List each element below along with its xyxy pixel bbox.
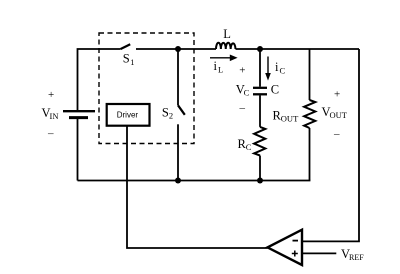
svg-text:IN: IN xyxy=(50,111,59,121)
wire inductor to top-right corner xyxy=(236,48,360,50)
svg-text:Driver: Driver xyxy=(117,111,139,120)
svg-text:C: C xyxy=(280,66,286,76)
wire right branch VOUT down to comparator minus input xyxy=(302,49,359,241)
dashed box (driver/switch enclosure) xyxy=(99,33,194,144)
svg-text:+: + xyxy=(239,65,245,77)
op-amp comparator xyxy=(268,230,303,265)
svg-text:+: + xyxy=(334,89,340,101)
svg-text:+: + xyxy=(48,89,54,101)
wire S1 right contact to inductor xyxy=(136,48,216,50)
wire RC bottom lead xyxy=(259,156,261,181)
svg-text:OUT: OUT xyxy=(281,114,299,124)
resistor ROUT top lead xyxy=(309,49,311,100)
svg-text:L: L xyxy=(223,27,231,41)
svg-text:REF: REF xyxy=(349,253,364,262)
comparator minus sign xyxy=(293,240,299,242)
svg-text:C: C xyxy=(244,87,250,97)
resistor ROUT zigzag xyxy=(304,100,315,128)
wire ROUT bottom lead xyxy=(309,128,311,181)
svg-text:2: 2 xyxy=(169,110,173,120)
battery V_IN plates xyxy=(63,110,95,112)
svg-text:S: S xyxy=(123,51,130,65)
node: junction S2 / top wire xyxy=(175,46,181,52)
wire capacitor to RC xyxy=(259,96,261,127)
svg-text:OUT: OUT xyxy=(330,110,348,120)
switch S2 top lead xyxy=(177,49,179,105)
svg-text:C: C xyxy=(246,142,252,152)
wire bottom rail xyxy=(78,180,311,182)
switch S1 lever xyxy=(121,44,131,49)
svg-text:1: 1 xyxy=(130,57,134,67)
driver box xyxy=(107,104,150,126)
node: junction RC bottom / rail xyxy=(257,178,263,184)
svg-text:–: – xyxy=(47,128,54,140)
switch S2 bottom lead xyxy=(177,124,179,180)
inductor L xyxy=(216,43,236,49)
svg-text:S: S xyxy=(162,105,169,119)
svg-text:i: i xyxy=(275,60,279,74)
switch S2 lever xyxy=(178,105,185,115)
resistor RC zigzag xyxy=(254,127,265,156)
svg-text:C: C xyxy=(271,82,279,96)
wire comparator plus input to VREF xyxy=(302,252,336,254)
node: junction capacitor / top wire xyxy=(257,46,263,52)
wire battery bottom to ground rail xyxy=(77,119,79,181)
wire top-left: battery top to S1 left contact xyxy=(78,49,121,110)
current arrow iL xyxy=(210,57,231,59)
current arrow iC xyxy=(267,57,269,75)
svg-text:–: – xyxy=(239,102,246,114)
wire comparator output to driver xyxy=(127,126,268,248)
svg-text:L: L xyxy=(218,65,223,75)
capacitor C plates xyxy=(253,87,267,89)
comparator plus sign xyxy=(292,251,298,257)
node: junction S2 bottom / rail xyxy=(175,178,181,184)
svg-text:i: i xyxy=(214,59,218,73)
wire capacitor top lead xyxy=(259,49,261,87)
svg-text:–: – xyxy=(333,128,340,140)
